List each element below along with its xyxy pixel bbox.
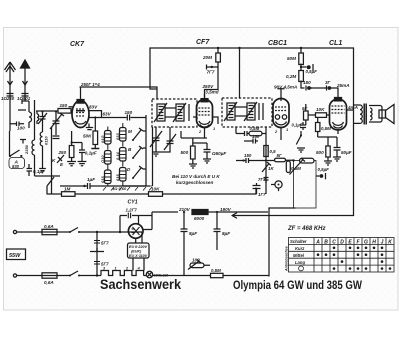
wire mains to selector	[141, 232, 143, 243]
IF2 coil b	[247, 103, 255, 120]
svg-text:0,14: 0,14	[115, 151, 120, 160]
svg-text:EU II·220V: EU II·220V	[129, 245, 148, 249]
svg-text:25mA: 25mA	[336, 83, 350, 88]
variable capacitor C tune	[50, 111, 64, 135]
svg-text:0,5M: 0,5M	[250, 126, 260, 131]
switch B	[133, 146, 143, 158]
svg-text:01G: 01G	[100, 135, 105, 143]
tube CF7	[197, 100, 213, 128]
svg-text:250Γ 1=4: 250Γ 1=4	[80, 82, 100, 87]
capacitor 50uF cathode	[204, 143, 211, 159]
svg-text:50µF: 50µF	[341, 150, 352, 155]
label 55W box	[7, 249, 26, 260]
ground cathode	[67, 162, 76, 166]
resistor 0.5M small	[316, 123, 320, 132]
resistor 500 cathode	[191, 146, 196, 159]
svg-text:10K: 10K	[316, 107, 325, 112]
bottom logos	[100, 277, 363, 292]
svg-text:90V 4,5mA: 90V 4,5mA	[274, 85, 297, 90]
svg-text:Bei 110 V durch E U K: Bei 110 V durch E U K	[172, 174, 220, 179]
capacitor 501	[22, 94, 29, 97]
svg-text:3Γ: 3Γ	[325, 80, 331, 85]
resistor 100 pot	[190, 263, 204, 268]
svg-text:ZF = 468 KHz: ZF = 468 KHz	[287, 226, 326, 232]
svg-text:4Ω 0,60: 4Ω 0,60	[111, 186, 127, 191]
svg-text:7Γ7: 7Γ7	[258, 177, 266, 182]
svg-text:250V: 250V	[202, 84, 215, 89]
potentiometer 1K	[262, 162, 271, 172]
svg-text:0,5M: 0,5M	[211, 268, 221, 273]
svg-text:4mA: 4mA	[347, 105, 358, 110]
capacitor 150 avc	[242, 159, 244, 161]
svg-text:0,5µF: 0,5µF	[318, 167, 330, 172]
wire mains bottom	[17, 275, 269, 277]
capacitor 507 bottom	[94, 262, 100, 265]
tube CL1	[330, 99, 347, 130]
svg-text:500: 500	[316, 150, 324, 155]
svg-text:CF7: CF7	[196, 39, 210, 46]
dial lamp	[146, 271, 152, 277]
wire grid	[36, 110, 73, 112]
antenna 2 break	[23, 81, 28, 85]
svg-text:CY1: CY1	[128, 200, 138, 206]
svg-text:B: B	[324, 239, 328, 245]
svg-text:1Ω250: 1Ω250	[1, 96, 15, 101]
IF transformer box 1	[152, 99, 197, 127]
phone jack	[275, 181, 282, 188]
wire CF7 plate drop	[205, 48, 219, 100]
feedback box	[294, 161, 317, 209]
svg-text:150: 150	[125, 110, 133, 115]
wire cathode join	[181, 131, 207, 143]
fuse 0.6A bottom	[42, 273, 57, 278]
svg-text:8µF: 8µF	[189, 231, 197, 236]
svg-text:M: M	[128, 129, 132, 134]
switch tone	[296, 131, 301, 145]
svg-text:O10: O10	[100, 155, 105, 163]
capacitor 25mA coupling	[324, 86, 334, 91]
potentiometer 0.5M vol	[300, 158, 315, 163]
svg-text:J: J	[381, 239, 384, 245]
capacitor det in	[236, 127, 249, 136]
coil L1	[22, 99, 32, 128]
capacitor 8uF second	[214, 212, 221, 250]
output transformer primary	[354, 105, 363, 123]
svg-text:50M: 50M	[287, 56, 296, 61]
svg-text:kurzgeschlossen: kurzgeschlossen	[176, 180, 213, 185]
wire CY1 anode line	[120, 216, 152, 233]
capacitor 50uF out	[334, 148, 341, 154]
wire CBC1 supply drop	[300, 48, 302, 88]
svg-text:5Γ7: 5Γ7	[101, 241, 109, 246]
wire feedback box bottom	[269, 207, 295, 209]
coil 01G	[105, 131, 112, 145]
wire det vertical	[265, 128, 267, 195]
svg-text:150: 150	[303, 80, 311, 85]
capacitor 507 top	[94, 241, 100, 244]
svg-text:Mittel: Mittel	[293, 253, 305, 258]
svg-text:250: 250	[58, 150, 67, 155]
IF2 coil a	[227, 103, 235, 120]
wire 500 50uF top	[318, 137, 337, 148]
svg-text:CK7: CK7	[70, 41, 85, 48]
tube CL1 top cap	[335, 98, 342, 101]
svg-text:50K: 50K	[83, 134, 92, 139]
svg-text:Schalter: Schalter	[290, 239, 307, 244]
coil 033	[120, 128, 127, 142]
trimmer cap 1	[150, 127, 162, 147]
resistor vol left	[286, 161, 290, 173]
resistor 10K	[316, 113, 327, 118]
svg-text:Ω50µF: Ω50µF	[211, 151, 226, 156]
svg-text:CL1: CL1	[329, 40, 342, 47]
tube CY1	[128, 224, 143, 239]
wire CK7 top cap line	[80, 87, 157, 99]
wire switch column	[123, 115, 153, 186]
resistor 150 grid	[58, 109, 71, 114]
switch mains bottom	[70, 271, 78, 276]
resistor 10K	[149, 192, 163, 197]
ground screen	[78, 162, 87, 166]
svg-text:1Γ7: 1Γ7	[258, 192, 266, 197]
svg-text:Kurz: Kurz	[295, 246, 305, 251]
wire CK7 plate 83V	[89, 111, 102, 118]
coil 014	[120, 148, 127, 162]
svg-text:1Ω501: 1Ω501	[17, 96, 31, 101]
svg-text:033: 033	[115, 133, 120, 140]
svg-text:0,2M: 0,2M	[286, 74, 296, 79]
svg-text:2350: 2350	[24, 144, 29, 155]
svg-text:1M: 1M	[64, 187, 71, 192]
table column letters	[315, 239, 392, 245]
capacitor 150 det	[244, 139, 258, 144]
heater winding	[101, 271, 144, 276]
capacitor ant series	[10, 110, 27, 126]
svg-text:Lang: Lang	[295, 260, 305, 265]
svg-text:D: D	[340, 239, 344, 245]
capacitor 757	[207, 65, 219, 70]
svg-text:5Γ: 5Γ	[277, 153, 282, 158]
coil O10	[105, 151, 112, 165]
mains terminal bottom	[13, 274, 16, 277]
coil small ant	[37, 112, 39, 125]
output transformer secondary	[370, 108, 372, 120]
capacitor 0.5uF	[300, 66, 302, 68]
svg-text:100: 100	[17, 126, 25, 131]
resistor 0.5M avc	[264, 146, 268, 157]
svg-text:190V: 190V	[220, 207, 232, 212]
svg-text:616: 616	[115, 174, 120, 181]
svg-text:55W: 55W	[9, 253, 21, 259]
tube CF7 pins	[193, 117, 218, 138]
coil 2350	[32, 100, 60, 176]
resistor 1M	[62, 192, 76, 197]
tube CK7	[72, 101, 89, 128]
resistor 20M	[216, 53, 221, 62]
svg-text:7Γ7: 7Γ7	[207, 70, 215, 75]
svg-text:1,2Γ7: 1,2Γ7	[126, 208, 138, 213]
capacitor 0.1uF agc	[27, 164, 33, 176]
coil 616	[105, 170, 112, 184]
terminal T left	[20, 140, 26, 144]
IF2 internal wires	[235, 103, 263, 120]
ground 50uF	[203, 159, 211, 163]
wire selector to winding	[133, 258, 144, 271]
svg-text:Antriebsachse: Antriebsachse	[284, 246, 288, 272]
svg-text:150: 150	[60, 103, 68, 108]
mains terminal top	[13, 230, 16, 233]
svg-text:K: K	[388, 239, 392, 245]
svg-text:6000: 6000	[194, 216, 205, 221]
svg-text:8µF: 8µF	[222, 231, 230, 236]
ground tone	[297, 148, 305, 152]
svg-text:Sachsenwerk: Sachsenwerk	[100, 277, 181, 292]
svg-text:(EUK): (EUK)	[131, 250, 142, 254]
coil 033b	[120, 168, 127, 182]
resistor 57 det	[275, 158, 286, 162]
table frame	[289, 238, 395, 273]
svg-text:0,6A: 0,6A	[44, 280, 54, 285]
svg-text:63V: 63V	[103, 112, 112, 117]
resistor 0.5M det	[249, 131, 262, 135]
svg-text:0,1µF: 0,1µF	[33, 169, 45, 174]
choke 6000	[192, 210, 208, 215]
resistor 50M	[299, 53, 304, 65]
capacitor mid	[90, 248, 104, 252]
capacitor 157	[253, 183, 261, 194]
ground trimmer	[152, 147, 170, 156]
svg-text:3,5md: 3,5md	[205, 90, 218, 95]
svg-text:20M: 20M	[202, 55, 212, 60]
svg-text:CBC1: CBC1	[268, 40, 287, 47]
svg-text:4: 4	[137, 267, 140, 271]
resistor 57 right	[304, 111, 309, 120]
wire osc column	[52, 127, 60, 194]
table dots	[317, 247, 392, 270]
antenna 2	[24, 67, 26, 101]
capacitor 757 det	[264, 178, 269, 184]
svg-text:A: A	[315, 239, 320, 245]
svg-text:0,1µF: 0,1µF	[292, 123, 303, 128]
svg-text:830: 830	[12, 164, 20, 169]
svg-text:616: 616	[100, 176, 105, 183]
output transformer core	[364, 104, 366, 125]
coil 0110	[40, 121, 42, 150]
switch mains top	[70, 228, 78, 233]
svg-text:0,1µF: 0,1µF	[85, 151, 97, 156]
tube CBC1	[273, 99, 289, 128]
IF1 internal wires	[165, 104, 189, 121]
wire mains junction vertical	[96, 232, 98, 276]
wire PSU top rail	[152, 212, 268, 230]
capacitor 250	[7, 94, 14, 97]
svg-text:C: C	[332, 239, 336, 245]
ground 500	[324, 157, 332, 165]
svg-text:Olympia 64 GW und 385 GW: Olympia 64 GW und 385 GW	[233, 278, 363, 292]
trimmer antenna	[38, 112, 47, 125]
svg-text:10K: 10K	[151, 187, 160, 192]
wire top B+ rail	[150, 47, 354, 49]
switch K E	[47, 155, 64, 194]
voltage selector box	[128, 243, 150, 258]
svg-text:0,6A: 0,6A	[44, 224, 54, 229]
svg-text:0,5: 0,5	[270, 149, 277, 154]
ground osc coil	[39, 150, 46, 173]
svg-text:EU X·110V: EU X·110V	[129, 254, 148, 258]
svg-text:1: 1	[115, 267, 117, 271]
tube CK7 top cap	[77, 100, 84, 104]
svg-text:H: H	[372, 239, 376, 245]
resistor 250 cathode	[71, 131, 73, 162]
trimmer cap 2	[164, 127, 176, 150]
capacitor 0.5uF fb	[316, 173, 326, 179]
svg-text:150: 150	[244, 153, 252, 158]
table row labels	[290, 239, 307, 265]
resistor 0.2M	[299, 71, 304, 82]
wire PSU vertical	[268, 208, 270, 276]
fuse 0.6A top	[42, 229, 57, 234]
wire CL1 right rail	[353, 48, 355, 216]
resistor 0.5M bleeder	[211, 273, 224, 277]
resistor 500 out	[326, 146, 330, 157]
svg-text:1µF: 1µF	[87, 177, 95, 182]
capacitor 1uF	[83, 185, 85, 187]
switch M	[133, 128, 143, 140]
resistor 50K	[94, 116, 96, 118]
tube CF7 top cap	[201, 99, 208, 102]
svg-text:5Γ: 5Γ	[302, 106, 308, 111]
wire CF7 screen drop	[150, 48, 156, 89]
speaker	[369, 106, 382, 123]
capacitor 150 series	[127, 115, 129, 121]
switch A box	[9, 158, 25, 169]
capacitor 150 coupling	[306, 86, 312, 91]
capacitor 0.1uF	[300, 122, 306, 130]
ground 50uF	[333, 153, 341, 161]
svg-text:500: 500	[181, 150, 189, 155]
svg-text:0,5µF: 0,5µF	[306, 69, 318, 74]
svg-text:0,5M: 0,5M	[321, 126, 331, 131]
svg-text:150: 150	[252, 134, 260, 139]
IF1 coil b	[176, 104, 184, 121]
capacitor 8uF first	[181, 212, 188, 276]
ground 500	[189, 164, 197, 168]
antenna 1	[5, 62, 16, 131]
wire output return	[232, 213, 354, 218]
wire AF plate line	[301, 88, 338, 98]
capacitor 0.1uF screen	[72, 143, 85, 162]
svg-text:100: 100	[192, 258, 200, 263]
svg-text:G: G	[364, 239, 368, 245]
svg-text:83V: 83V	[89, 105, 98, 110]
svg-text:0110: 0110	[44, 136, 49, 145]
IF transformer box 2	[222, 98, 272, 127]
ground CK7	[86, 124, 93, 130]
svg-text:1K: 1K	[268, 166, 274, 171]
switch A	[10, 148, 20, 156]
wire RF bottom rail	[47, 188, 256, 194]
ground band bar	[103, 186, 153, 191]
wire mains top	[17, 231, 142, 233]
svg-text:0,5M: 0,5M	[291, 166, 301, 171]
wire antenna left drop	[9, 131, 11, 148]
wire PSU bottom	[183, 275, 185, 278]
antenna 1 break	[8, 81, 13, 85]
wire 63V line	[89, 117, 146, 119]
IF1 coil a	[157, 104, 165, 121]
switch D	[133, 166, 143, 178]
